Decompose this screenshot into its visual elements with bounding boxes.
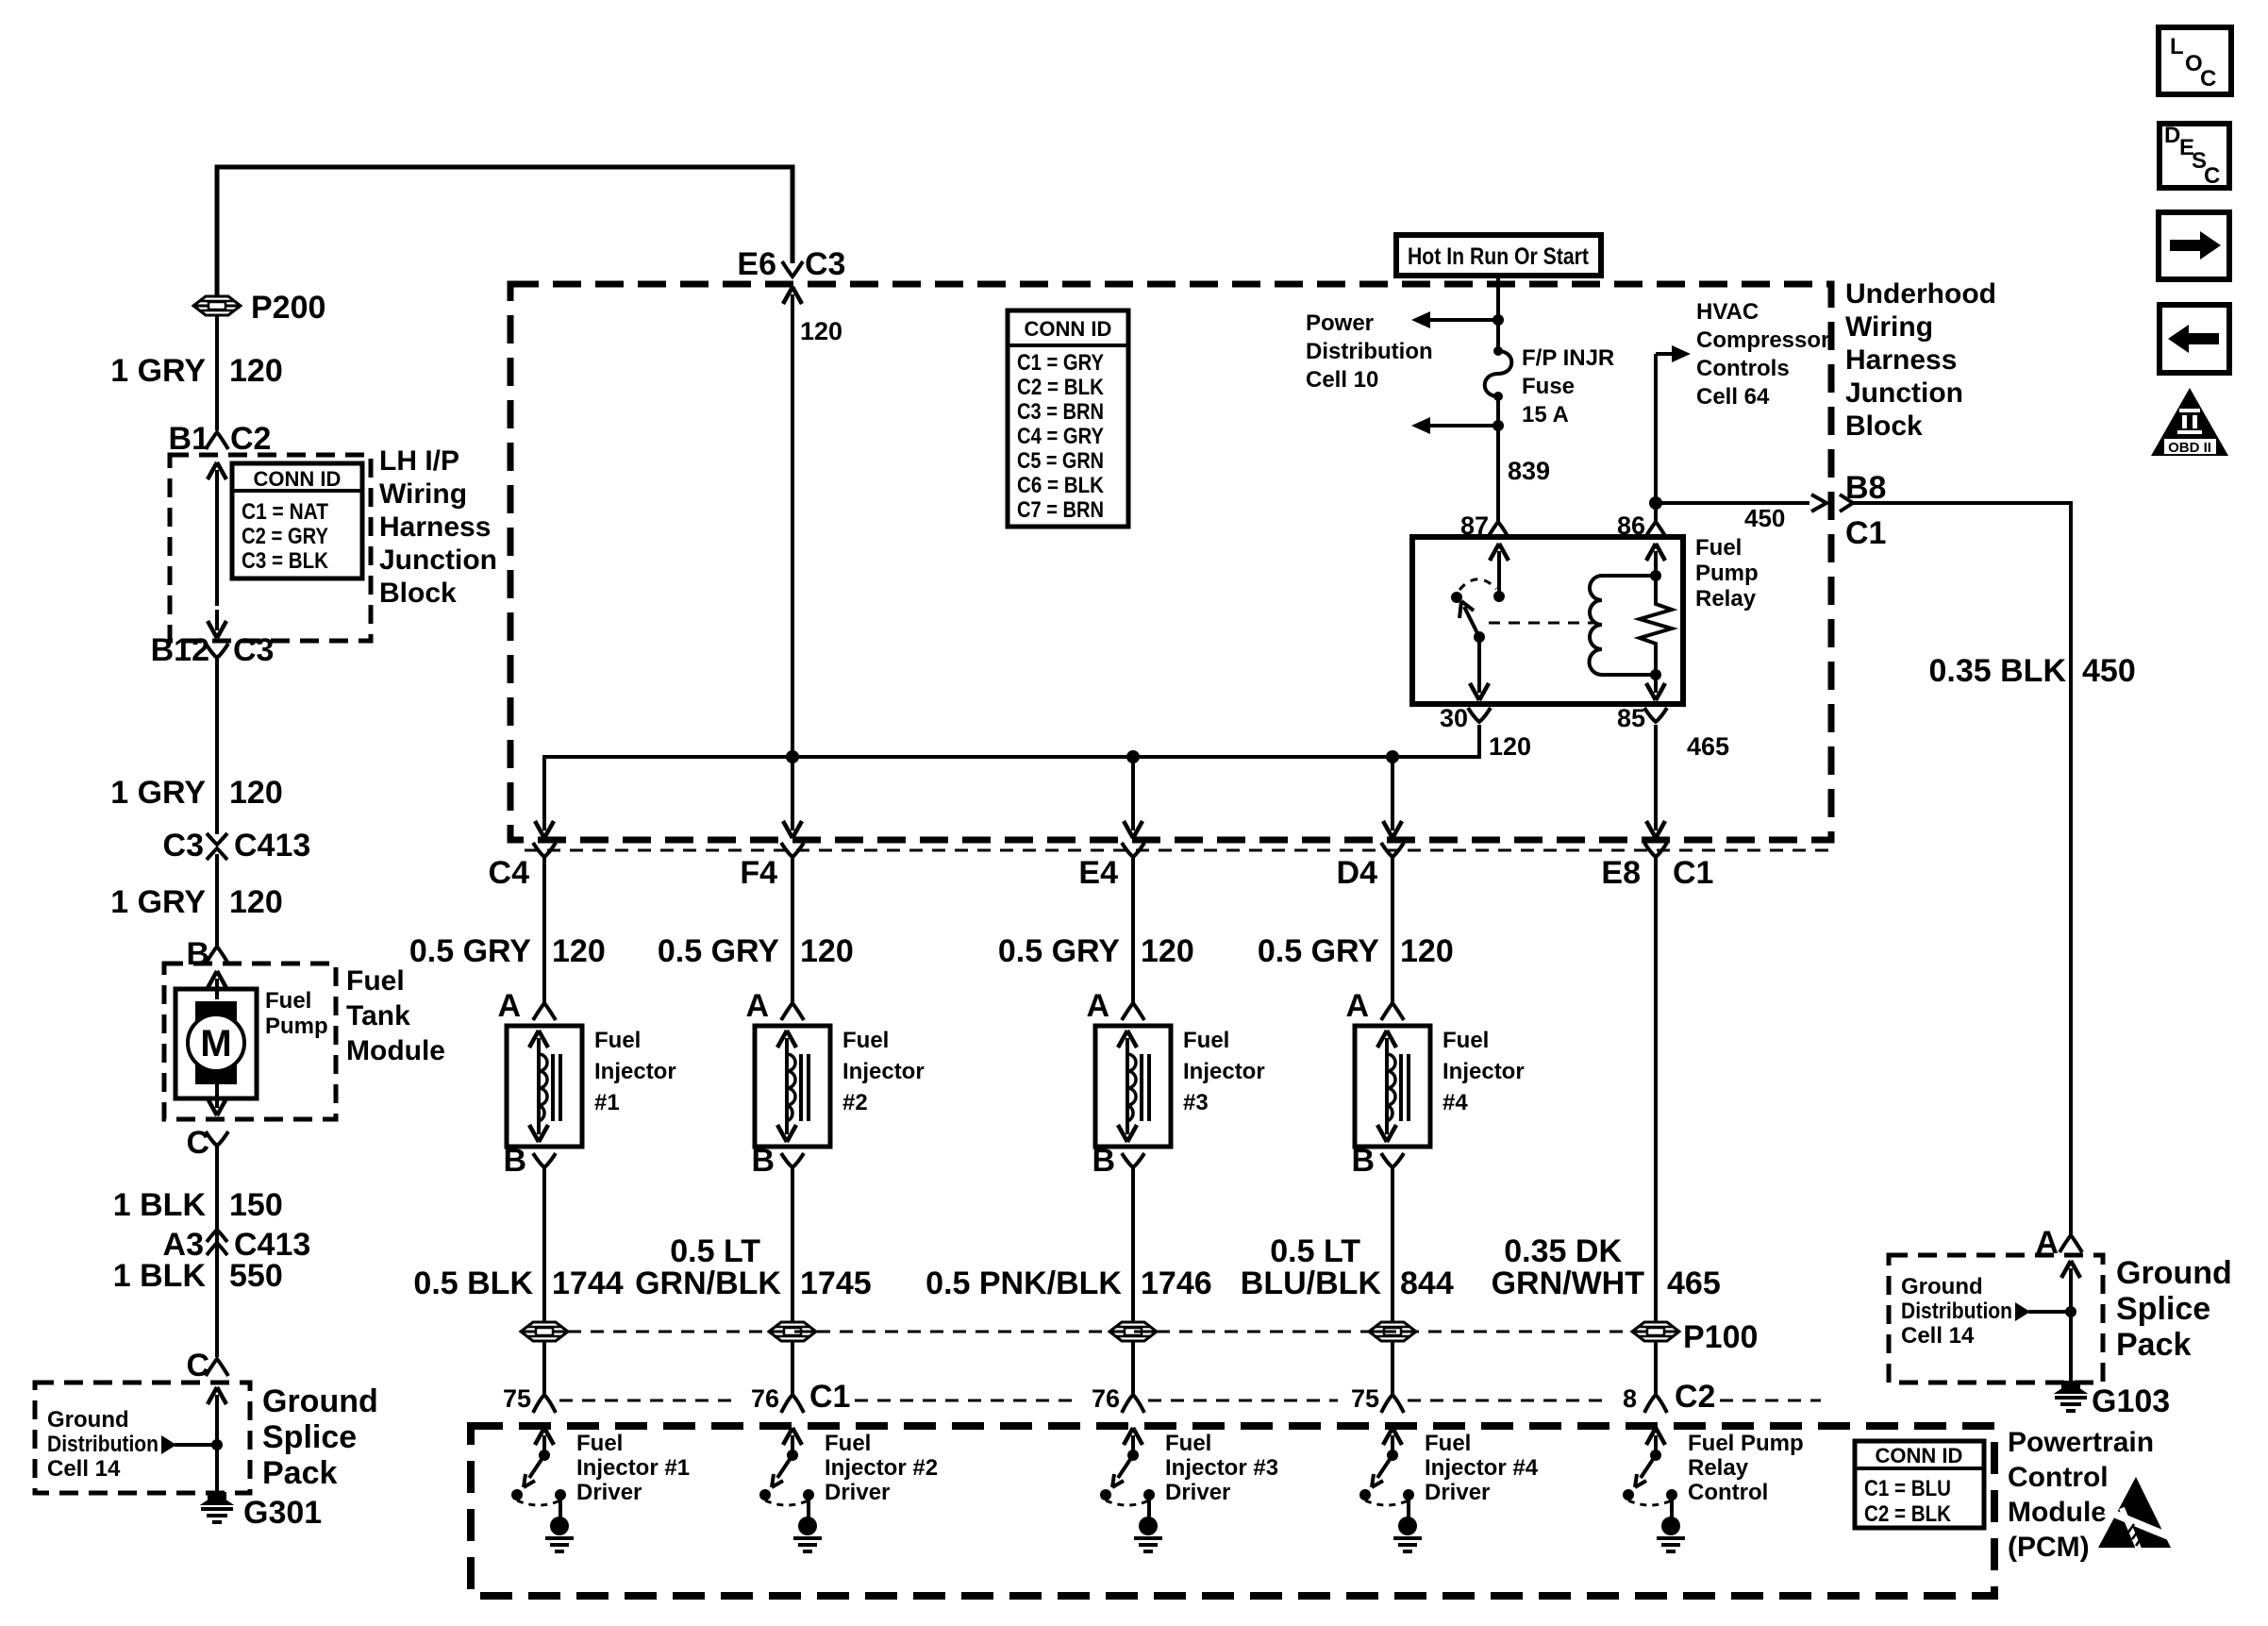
svg-text:Power: Power — [1306, 310, 1374, 336]
wire E8 to PCM (465) — [1654, 854, 1658, 1321]
label Ground Splice Pack (left) — [262, 1383, 378, 1491]
label Ground Splice Pack (right) — [2116, 1255, 2232, 1363]
svg-text:C: C — [2204, 163, 2220, 189]
wire inside splice pack to ground — [215, 1412, 219, 1493]
svg-text:LH I/P: LH I/P — [379, 445, 459, 477]
wire arrow out of fuel tank module — [215, 1083, 219, 1102]
PCM pin 76 connector — [751, 1379, 851, 1415]
terminal A connector (ground splice pack right) — [2035, 1225, 2082, 1261]
PCM pin 75 connector — [1351, 1384, 1404, 1413]
svg-text:CONN ID: CONN ID — [1025, 317, 1112, 341]
wire 0.35 BLK 450 to right side — [1853, 503, 2071, 1234]
svg-text:Tank: Tank — [346, 1000, 410, 1031]
svg-text:D4: D4 — [1337, 855, 1378, 891]
svg-text:120: 120 — [1489, 732, 1531, 761]
node label 0.5 GRY 120 (injector #1) — [409, 933, 606, 969]
svg-text:C3: C3 — [163, 828, 204, 863]
wire arrow into connector E8 — [1654, 819, 1658, 830]
wire relay pin85 column down — [1654, 725, 1658, 821]
svg-text:0.5 LT: 0.5 LT — [1270, 1233, 1360, 1269]
svg-text:0.5 PNK/BLK: 0.5 PNK/BLK — [926, 1266, 1122, 1301]
wire C413 to B — [215, 854, 219, 946]
svg-text:Fuel: Fuel — [1695, 535, 1742, 561]
DESC icon — [2160, 123, 2229, 189]
label Powertrain Control Module (PCM) — [2008, 1427, 2154, 1563]
relay actuation dashed link — [1489, 622, 1596, 625]
svg-text:Splice: Splice — [262, 1419, 357, 1455]
label Power Distribution Cell 10 — [1306, 310, 1433, 393]
svg-text:#1: #1 — [594, 1090, 620, 1115]
wire arrow into connector F4 — [791, 819, 794, 830]
label Underhood Wiring Harness Junction Block — [1845, 278, 1996, 442]
wire inside LH block — [215, 489, 219, 606]
svg-text:550: 550 — [229, 1258, 283, 1294]
ground splice pack dashed box (left) — [35, 1383, 250, 1493]
fuel pump relay box — [1412, 537, 1683, 704]
node label 0.5 LT BLU/BLK 844 — [1270, 1233, 1360, 1269]
svg-text:D: D — [2164, 123, 2180, 148]
svg-text:#4: #4 — [1443, 1090, 1468, 1115]
label Fuel Pump Relay — [1695, 535, 1759, 612]
svg-text:CONN ID: CONN ID — [1876, 1444, 1963, 1467]
wire arrow into LH block — [215, 470, 219, 491]
svg-text:1 GRY: 1 GRY — [110, 775, 206, 811]
svg-text:1744: 1744 — [552, 1266, 624, 1301]
ESD sensitivity symbol — [2098, 1477, 2176, 1553]
svg-text:Module: Module — [346, 1035, 445, 1066]
Fuel Injector #4 Driver driver circuit — [1359, 1428, 1422, 1551]
svg-text:Powertrain: Powertrain — [2008, 1427, 2154, 1458]
svg-text:0.5 BLK: 0.5 BLK — [413, 1266, 533, 1301]
svg-text:Cell 10: Cell 10 — [1306, 367, 1378, 393]
svg-text:86: 86 — [1617, 511, 1645, 540]
node C connector (ground splice pack) — [186, 1348, 228, 1383]
label Ground Distribution Cell 14 — [47, 1407, 158, 1482]
node B connector (fuel tank) — [186, 936, 228, 972]
svg-text:120: 120 — [229, 353, 283, 389]
node label 1 GRY 120 (middle) — [110, 775, 283, 811]
svg-text:Injector #3: Injector #3 — [1165, 1455, 1278, 1481]
svg-text:A: A — [497, 988, 521, 1024]
svg-text:Junction: Junction — [1845, 377, 1963, 409]
svg-text:Injector: Injector — [1443, 1059, 1525, 1084]
svg-text:Underhood: Underhood — [1845, 278, 1996, 310]
Fuel Pump Relay Control driver circuit — [1623, 1428, 1685, 1551]
wire bus 120 from relay pin30 to injectors — [544, 725, 1479, 821]
relay switch movable arm — [1459, 601, 1479, 637]
svg-text:C6 = BLK: C6 = BLK — [1017, 473, 1105, 498]
wire D4 to injector #4 — [1391, 854, 1394, 1003]
svg-text:Injector #2: Injector #2 — [825, 1455, 938, 1481]
svg-text:CONN ID: CONN ID — [254, 467, 342, 491]
svg-text:Fuel: Fuel — [1183, 1028, 1229, 1053]
terminal A of injector #2 — [745, 988, 804, 1024]
svg-text:C3: C3 — [805, 246, 845, 282]
motor M symbol — [188, 1001, 244, 1084]
svg-text:C1 = BLU: C1 = BLU — [1864, 1476, 1951, 1501]
svg-text:C: C — [2200, 66, 2216, 92]
label LH I/P Wiring Harness Junction Block — [379, 445, 497, 609]
terminal A of injector #4 — [1345, 988, 1404, 1024]
connector C4 at junction block face — [489, 843, 556, 891]
svg-text:Pack: Pack — [262, 1455, 337, 1491]
splice dashed link line — [568, 1331, 1632, 1333]
Hot In Run Or Start box — [1396, 235, 1601, 276]
svg-text:120: 120 — [1400, 933, 1454, 969]
svg-text:Injector: Injector — [594, 1059, 676, 1084]
svg-text:Injector #1: Injector #1 — [576, 1455, 690, 1481]
svg-text:150: 150 — [229, 1187, 283, 1223]
svg-text:Driver: Driver — [1165, 1480, 1230, 1505]
terminal B of injector #1 — [503, 1143, 556, 1179]
svg-text:P200: P200 — [251, 290, 325, 326]
svg-text:C1 = NAT: C1 = NAT — [242, 499, 328, 525]
svg-text:Harness: Harness — [1845, 344, 1957, 376]
connector D4 at junction block face — [1337, 843, 1404, 891]
svg-text:Relay: Relay — [1688, 1455, 1749, 1481]
svg-text:Ground: Ground — [1901, 1274, 1983, 1299]
svg-text:C3 = BRN: C3 = BRN — [1017, 399, 1104, 425]
svg-text:F/P INJR: F/P INJR — [1522, 345, 1614, 371]
fuel injector #4 — [1355, 1026, 1430, 1147]
terminal A of injector #3 — [1086, 988, 1144, 1024]
right arrow icon — [2159, 212, 2229, 279]
svg-text:C: C — [186, 1348, 209, 1383]
fuel injector #2 — [755, 1026, 830, 1147]
node label 1 GRY 120 (lower) — [110, 884, 283, 920]
svg-text:C1: C1 — [1845, 515, 1886, 551]
svg-text:Hot In Run Or Start: Hot In Run Or Start — [1408, 243, 1590, 270]
CONN ID table (PCM) — [1855, 1441, 1984, 1528]
svg-text:BLU/BLK: BLU/BLK — [1241, 1266, 1382, 1301]
node label 1 BLK 150 — [113, 1187, 283, 1223]
wire arrow into connector C4 — [542, 819, 546, 830]
splice on injector #4 wire — [1369, 1322, 1416, 1341]
relay pin 87 connector — [1460, 511, 1509, 540]
splice on injector #1 wire — [521, 1322, 568, 1341]
svg-text:Injector: Injector — [842, 1059, 925, 1084]
svg-text:Pump: Pump — [1695, 561, 1759, 586]
relay switch: pin 87 lead — [1490, 544, 1509, 602]
svg-text:8: 8 — [1623, 1384, 1637, 1413]
relay coil — [1590, 570, 1662, 680]
svg-text:GRN/BLK: GRN/BLK — [635, 1266, 781, 1301]
svg-text:C5 = GRN: C5 = GRN — [1017, 448, 1104, 474]
svg-text:120: 120 — [229, 884, 283, 920]
svg-text:0.5 GRY: 0.5 GRY — [998, 933, 1120, 969]
wire column E4 from bus — [1126, 750, 1140, 821]
svg-text:Module: Module — [2008, 1497, 2107, 1528]
left arrow icon — [2160, 305, 2229, 373]
splice P200 — [193, 290, 325, 326]
svg-text:Block: Block — [379, 578, 457, 609]
svg-text:Controls: Controls — [1696, 356, 1790, 381]
svg-text:B12: B12 — [151, 632, 209, 668]
fuel injector #1 — [507, 1026, 582, 1147]
connector C3/C413 — [163, 828, 311, 863]
svg-text:Ground: Ground — [47, 1407, 129, 1433]
wire arrow into connector D4 — [1391, 819, 1394, 830]
PCM connector face (thin dashed) — [559, 1400, 739, 1402]
svg-text:76: 76 — [1092, 1384, 1120, 1413]
label F/P INJR Fuse 15 A — [1522, 345, 1614, 427]
svg-text:450: 450 — [2082, 653, 2136, 689]
svg-text:Driver: Driver — [576, 1480, 642, 1505]
svg-text:C2: C2 — [1675, 1379, 1715, 1415]
node label 0.5 GRY 120 (injector #2) — [658, 933, 854, 969]
svg-text:0.35 DK: 0.35 DK — [1504, 1233, 1622, 1269]
svg-text:B: B — [1351, 1143, 1375, 1179]
svg-text:E6: E6 — [737, 246, 776, 282]
splice on injector #2 wire — [769, 1322, 816, 1341]
wire E4 to injector #3 — [1131, 854, 1135, 1003]
svg-text:1 BLK: 1 BLK — [113, 1258, 207, 1294]
svg-text:B: B — [751, 1143, 775, 1179]
svg-text:465: 465 — [1687, 732, 1729, 761]
svg-text:E8: E8 — [1601, 855, 1641, 891]
svg-text:C2 = BLK: C2 = BLK — [1017, 375, 1105, 400]
fuel pump motor box — [175, 989, 257, 1098]
svg-text:Compressor: Compressor — [1696, 327, 1829, 353]
svg-text:1 BLK: 1 BLK — [113, 1187, 207, 1223]
wire inside right splice pack — [2069, 1283, 2073, 1383]
node B12 C3 connector — [151, 632, 275, 668]
svg-text:Control: Control — [2008, 1462, 2109, 1493]
svg-text:75: 75 — [503, 1384, 531, 1413]
underhood wiring harness junction block dashed box — [510, 284, 1831, 840]
svg-text:0.5 GRY: 0.5 GRY — [409, 933, 531, 969]
svg-text:C: C — [186, 1125, 209, 1161]
relay pin 30 connector — [1440, 704, 1491, 732]
svg-text:A: A — [745, 988, 769, 1024]
svg-text:Fuel: Fuel — [265, 988, 311, 1014]
svg-text:120: 120 — [552, 933, 606, 969]
svg-text:75: 75 — [1351, 1384, 1379, 1413]
PCM pin 8 / C2 connector — [1623, 1379, 1716, 1415]
node label 0.5 GRY 120 (injector #4) — [1258, 933, 1454, 969]
svg-text:0.5 LT: 0.5 LT — [670, 1233, 760, 1269]
wire F4 to injector #2 — [791, 854, 794, 1003]
svg-text:A: A — [1086, 988, 1109, 1024]
OBD II icon — [2151, 388, 2228, 456]
svg-text:Cell 64: Cell 64 — [1696, 384, 1770, 410]
svg-text:Fuel: Fuel — [346, 965, 405, 997]
svg-text:30: 30 — [1440, 704, 1468, 732]
label Fuel Injector #4 Driver — [1425, 1431, 1539, 1505]
svg-text:B1: B1 — [169, 421, 209, 457]
svg-text:Pump: Pump — [265, 1014, 328, 1039]
Fuel Injector #3 Driver driver circuit — [1100, 1428, 1162, 1551]
ground distribution branch arrow — [161, 1435, 223, 1454]
node C connector (below fuel tank) — [186, 1125, 228, 1161]
svg-text:A: A — [1345, 988, 1369, 1024]
ground G103 — [2055, 1382, 2170, 1419]
svg-text:C7 = BRN: C7 = BRN — [1017, 497, 1104, 523]
wire pin86 node up to HVAC branch — [1649, 345, 1691, 522]
splice on injector #3 wire — [1109, 1322, 1157, 1341]
svg-text:Driver: Driver — [825, 1480, 890, 1505]
svg-text:844: 844 — [1400, 1266, 1454, 1301]
label Fuel Injector #2 — [842, 1028, 925, 1115]
label Fuel Injector #3 Driver — [1165, 1431, 1278, 1505]
ground splice pack dashed box (right) — [1889, 1255, 2103, 1383]
CONN ID table (underhood block) — [1008, 310, 1128, 527]
node label 0.5 PNK/BLK 1746 — [926, 1266, 1211, 1301]
svg-text:Control: Control — [1688, 1480, 1768, 1505]
wire C4 to injector #1 — [542, 854, 546, 1003]
PCM pin 75 connector — [503, 1384, 556, 1413]
svg-text:839: 839 — [1508, 457, 1550, 485]
svg-text:(PCM): (PCM) — [2008, 1532, 2090, 1563]
Fuel Injector #1 Driver driver circuit — [511, 1428, 574, 1551]
relay switch travel arc (dashed) — [1459, 579, 1496, 590]
relay pin 86 connector — [1617, 511, 1667, 540]
svg-text:C3: C3 — [233, 632, 274, 668]
wire hot feed down from box — [1496, 276, 1500, 351]
svg-text:OBD II: OBD II — [2168, 440, 2211, 456]
relay pin 86 lead — [1646, 544, 1665, 700]
wire fuse to relay pin 87 — [1496, 396, 1500, 522]
LH I/P junction block dashed box — [170, 455, 371, 641]
node E6/C3 connector at top of junction block — [737, 246, 845, 282]
svg-text:Wiring: Wiring — [379, 478, 467, 510]
label Fuel Injector #4 — [1443, 1028, 1525, 1115]
svg-text:Fuel Pump: Fuel Pump — [1688, 1431, 1804, 1456]
svg-text:Injector #4: Injector #4 — [1425, 1455, 1539, 1481]
svg-text:0.5 GRY: 0.5 GRY — [658, 933, 779, 969]
svg-text:Injector: Injector — [1183, 1059, 1265, 1084]
svg-text:15 A: 15 A — [1522, 402, 1569, 427]
svg-text:GRN/WHT: GRN/WHT — [1492, 1266, 1645, 1301]
svg-text:0.5 GRY: 0.5 GRY — [1258, 933, 1379, 969]
svg-text:1 GRY: 1 GRY — [110, 353, 206, 389]
svg-text:C1: C1 — [809, 1379, 850, 1415]
svg-text:Cell 14: Cell 14 — [47, 1456, 121, 1482]
svg-text:Fuel: Fuel — [1165, 1431, 1211, 1456]
wire arrow into ground splice pack — [215, 1395, 219, 1414]
fuse F/P INJR 15A symbol — [1485, 346, 1512, 401]
svg-text:Fuel: Fuel — [594, 1028, 641, 1053]
label HVAC Compressor Controls Cell 64 — [1696, 299, 1829, 410]
fuel injector #3 — [1095, 1026, 1171, 1147]
terminal B of injector #3 — [1092, 1143, 1144, 1179]
svg-text:C2 = BLK: C2 = BLK — [1864, 1501, 1952, 1527]
svg-text:120: 120 — [800, 933, 854, 969]
powertrain control module dashed box — [471, 1426, 1994, 1596]
node label 0.35 DK GRN/WHT 465 — [1492, 1233, 1721, 1301]
svg-text:85: 85 — [1617, 704, 1645, 732]
svg-text:G301: G301 — [243, 1495, 322, 1531]
svg-text:Distribution: Distribution — [1901, 1299, 2012, 1324]
relay pin 85 connector — [1617, 704, 1667, 732]
terminal B of injector #2 — [751, 1143, 804, 1179]
wire arrow out of LH block — [215, 610, 219, 630]
node label 0.5 LT GRN/BLK 1745 — [670, 1233, 760, 1269]
svg-text:P100: P100 — [1683, 1319, 1758, 1355]
svg-text:C3 = BLK: C3 = BLK — [242, 548, 329, 574]
svg-text:B: B — [503, 1143, 526, 1179]
svg-text:76: 76 — [751, 1384, 779, 1413]
ground G301 — [201, 1493, 322, 1531]
svg-text:Ground: Ground — [2116, 1255, 2232, 1291]
connector E8/C1 at junction block face — [1601, 843, 1713, 891]
node label 0.5 BLK 1744 — [413, 1266, 623, 1301]
node label 1 BLK 550 — [113, 1258, 283, 1294]
connector F4 at junction block face — [740, 843, 804, 891]
svg-text:Relay: Relay — [1695, 586, 1757, 612]
terminal A of injector #1 — [497, 988, 556, 1024]
svg-text:C4: C4 — [489, 855, 530, 891]
wire injector #4 to PCM — [1391, 1165, 1394, 1321]
svg-text:Wiring: Wiring — [1845, 311, 1933, 343]
svg-text:B: B — [186, 936, 209, 972]
svg-text:HVAC: HVAC — [1696, 299, 1759, 325]
wire column D4 from bus — [1386, 750, 1399, 821]
wire arrow into fuel tank module — [215, 979, 219, 999]
label Fuel Injector #1 Driver — [576, 1431, 690, 1505]
svg-text:C2: C2 — [230, 421, 271, 457]
wire injector #2 to PCM — [791, 1165, 794, 1321]
wire arrow into right splice pack — [2069, 1268, 2073, 1285]
wire B12 to C3/C413 — [215, 658, 219, 834]
svg-text:Ground: Ground — [262, 1383, 378, 1419]
wire C to ground splice pack — [215, 1144, 219, 1357]
svg-text:Junction: Junction — [379, 545, 497, 576]
svg-text:Fuse: Fuse — [1522, 374, 1575, 399]
power distribution branch (lower) — [1411, 417, 1504, 434]
svg-text:1 GRY: 1 GRY — [110, 884, 206, 920]
svg-text:M: M — [200, 1023, 231, 1064]
node label 1 GRY 120 (upper) — [110, 353, 283, 389]
svg-text:G103: G103 — [2092, 1383, 2170, 1419]
svg-text:#2: #2 — [842, 1090, 868, 1115]
svg-text:C2 = GRY: C2 = GRY — [242, 524, 328, 549]
wire E6 feed down to bus (column F4) — [783, 287, 802, 821]
label Fuel Injector #1 — [594, 1028, 676, 1115]
svg-text:Fuel: Fuel — [1443, 1028, 1489, 1053]
svg-text:120: 120 — [1141, 933, 1194, 969]
svg-text:0.35 BLK: 0.35 BLK — [1929, 653, 2067, 689]
terminal B of injector #4 — [1351, 1143, 1404, 1179]
svg-text:#3: #3 — [1183, 1090, 1209, 1115]
connector B8/C1 on junction block edge — [1840, 470, 1886, 551]
svg-text:E4: E4 — [1078, 855, 1118, 891]
svg-text:L: L — [2170, 34, 2184, 59]
CONN ID table (LH block) — [232, 463, 362, 578]
label Fuel Tank Module — [346, 965, 445, 1066]
svg-text:Distribution: Distribution — [1306, 339, 1433, 364]
svg-text:C1: C1 — [1673, 855, 1713, 891]
power distribution branch (upper) — [1411, 311, 1504, 328]
LOC icon — [2159, 27, 2231, 94]
PCM pin 76 connector — [1092, 1384, 1144, 1413]
svg-text:465: 465 — [1667, 1266, 1721, 1301]
label Fuel Injector #3 — [1183, 1028, 1265, 1115]
junction block connector face (thin dashed) — [525, 849, 1838, 852]
svg-text:Driver: Driver — [1425, 1480, 1490, 1505]
node B1 C2 connector — [169, 421, 272, 457]
wire P200 to B1 — [215, 315, 219, 430]
svg-text:F4: F4 — [740, 855, 777, 891]
wire 450 to junction block B8 — [1656, 495, 1826, 511]
svg-text:C1 = GRY: C1 = GRY — [1017, 350, 1104, 376]
svg-text:Harness: Harness — [379, 511, 491, 543]
wire arrow into connector E4 — [1131, 819, 1135, 830]
wire top-left loop from P200 up and over to E6 — [217, 167, 792, 298]
wire injector #1 to PCM — [542, 1165, 546, 1321]
svg-text:1745: 1745 — [800, 1266, 872, 1301]
connector E4 at junction block face — [1078, 843, 1144, 891]
